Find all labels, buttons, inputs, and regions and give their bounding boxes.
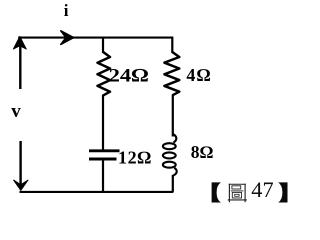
resistor 4Ω (zigzag) bbox=[164, 52, 179, 95]
svg-text:24Ω: 24Ω bbox=[109, 64, 149, 86]
wire: middle branch bottom lead bbox=[102, 160, 104, 192]
wire: bottom horizontal bbox=[20, 191, 173, 193]
figure caption: left bracket 【 bbox=[212, 182, 221, 202]
wire: middle branch between resistor and capacitor bbox=[102, 95, 104, 150]
wire: top horizontal (node A to node B) bbox=[18, 37, 173, 39]
svg-text:8Ω: 8Ω bbox=[191, 142, 214, 162]
svg-text:12Ω: 12Ω bbox=[118, 147, 152, 167]
voltage arrow down (left port, bottom) bbox=[14, 141, 28, 190]
svg-text:i: i bbox=[64, 1, 69, 20]
figure caption: right bracket 】 bbox=[278, 182, 287, 202]
inductor 8Ω (coil) bbox=[163, 134, 177, 176]
wire: middle branch top lead bbox=[102, 37, 104, 53]
wire: right branch bottom lead bbox=[172, 175, 174, 193]
svg-text:47: 47 bbox=[251, 177, 273, 202]
figure caption: 圖 glyph bbox=[228, 184, 247, 203]
current arrowhead on top wire bbox=[61, 31, 74, 45]
svg-text:v: v bbox=[11, 101, 21, 122]
resistor 24Ω (zigzag) bbox=[98, 52, 111, 95]
capacitor 12Ω (plates) bbox=[89, 151, 120, 159]
wire: right branch between resistor and inductor bbox=[172, 95, 174, 137]
voltage arrow up (left port, top) bbox=[13, 36, 26, 89]
wire: right branch top lead bbox=[171, 37, 173, 53]
svg-text:4Ω: 4Ω bbox=[186, 65, 211, 85]
